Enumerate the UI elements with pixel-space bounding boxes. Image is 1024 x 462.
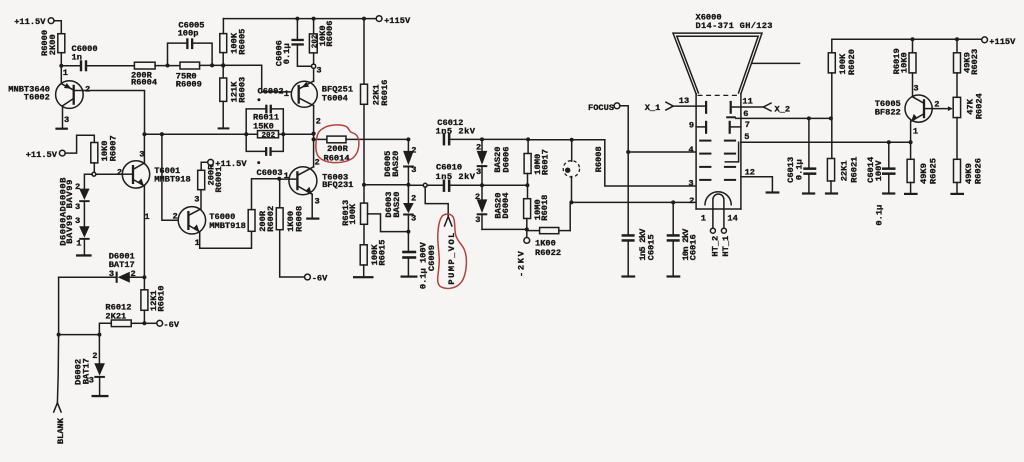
+115V rail right	[832, 39, 982, 53]
svg-text:3: 3	[315, 196, 320, 206]
label D6000A D6000B BAV99	[59, 177, 76, 246]
diode D6000A BAV99	[75, 216, 90, 248]
wire	[482, 184, 527, 186]
node	[671, 200, 675, 204]
svg-text:2: 2	[476, 143, 481, 153]
svg-text:PUMP_VOL: PUMP_VOL	[447, 233, 457, 285]
heater	[701, 192, 738, 229]
svg-text:2: 2	[315, 158, 320, 168]
capacitor C6013 0.1u	[786, 116, 816, 194]
svg-text:2: 2	[85, 85, 90, 95]
svg-text:3: 3	[64, 115, 69, 125]
wire	[222, 53, 224, 78]
svg-text:R6023: R6023	[970, 49, 980, 75]
svg-text:11: 11	[742, 97, 752, 107]
node	[142, 132, 146, 136]
resistor R6011 15K0 boxed 202	[253, 113, 279, 140]
wire	[93, 163, 95, 172]
node	[57, 333, 61, 337]
svg-text:BAS20: BAS20	[391, 151, 401, 177]
svg-text:X_2: X_2	[775, 104, 791, 114]
svg-text:C6003: C6003	[257, 168, 283, 178]
node open PUMP junction	[423, 183, 427, 187]
wire	[956, 183, 958, 193]
svg-text:-6V: -6V	[163, 320, 179, 330]
svg-text:100p: 100p	[178, 29, 199, 39]
resistor R6019 10K0	[892, 39, 916, 74]
wire	[65, 135, 94, 153]
svg-text:6: 6	[743, 109, 748, 119]
spark gap	[563, 140, 579, 203]
diode D6002 BAT17	[73, 335, 108, 398]
terminal +11.5V second	[26, 150, 65, 160]
svg-text:2: 2	[316, 116, 321, 126]
terminal +115V right	[982, 37, 1016, 47]
node	[295, 17, 299, 21]
svg-text:1n5 2kV: 1n5 2kV	[436, 172, 476, 182]
node	[166, 64, 170, 68]
wire	[279, 181, 281, 208]
connector X_2	[741, 97, 790, 115]
svg-text:C6009: C6009	[427, 245, 437, 271]
pin 6 line	[726, 109, 831, 119]
terminal HT_2	[710, 228, 720, 256]
wire R6008 to -6V	[280, 230, 305, 277]
svg-text:2: 2	[117, 167, 122, 177]
resistor R6017 10M0	[524, 139, 551, 175]
node	[406, 137, 410, 141]
svg-text:D6006: D6006	[502, 147, 512, 173]
CRT X6000 D14-371 GH/123 label	[696, 13, 773, 31]
svg-text:R6022: R6022	[535, 248, 561, 258]
node	[570, 138, 574, 142]
svg-text:0.1μ: 0.1μ	[282, 43, 292, 64]
node	[142, 321, 146, 325]
bus wire	[145, 133, 258, 135]
bus wire	[279, 133, 314, 135]
svg-text:3: 3	[89, 375, 94, 385]
terminal -2KV	[517, 238, 530, 278]
pin 7 electrode	[729, 120, 750, 134]
svg-text:C6015: C6015	[647, 234, 657, 260]
capacitor C6014 0.1u 100V	[866, 142, 895, 225]
anode line	[752, 62, 800, 64]
resistor R6008 1K00	[276, 206, 304, 232]
wire T6001 collector	[143, 134, 145, 163]
wire	[62, 106, 64, 128]
wire	[527, 174, 529, 199]
terminal -6V right	[305, 274, 329, 284]
wire	[201, 162, 208, 170]
wire R6016 column junction	[364, 184, 408, 186]
resistor R6021 22K1	[827, 157, 859, 183]
resistor R6009 75R0	[176, 62, 202, 90]
svg-text:14: 14	[727, 214, 737, 224]
svg-text:2: 2	[92, 351, 97, 361]
svg-text:R6004: R6004	[131, 78, 157, 88]
wire to T6001 base	[96, 173, 123, 175]
resistor R6001 200R	[198, 164, 224, 193]
potentiometer R6024 47K	[953, 93, 984, 119]
resistor R6023 49K9	[954, 39, 981, 75]
svg-text:1n: 1n	[72, 53, 82, 63]
pin 11 electrode	[730, 101, 732, 114]
svg-text:R6008: R6008	[295, 206, 305, 232]
svg-text:100V: 100V	[874, 160, 884, 182]
ground	[825, 192, 838, 194]
wire T6003 collector	[313, 139, 315, 166]
node	[955, 37, 959, 41]
net label R6008 wire to pin3	[594, 140, 696, 186]
svg-text:R6015: R6015	[378, 240, 388, 266]
svg-text:BAS20: BAS20	[392, 192, 402, 218]
svg-text:MMBT918: MMBT918	[154, 175, 191, 185]
svg-text:2: 2	[131, 269, 136, 279]
svg-text:2: 2	[75, 182, 80, 192]
pin 9 electrode	[689, 120, 707, 133]
svg-text:R6018: R6018	[540, 195, 550, 221]
terminal FOCUS	[588, 103, 620, 113]
node	[406, 183, 410, 187]
wire	[956, 118, 958, 160]
svg-text:1: 1	[63, 68, 68, 78]
stub with bar below R6003	[218, 101, 230, 129]
svg-text:R6009: R6009	[176, 80, 202, 90]
svg-text:1K00: 1K00	[535, 238, 556, 248]
resistor R6003 121K	[220, 77, 248, 103]
terminal HT_1	[721, 228, 731, 256]
svg-text:202: 202	[262, 132, 276, 140]
resistor R6013 100K	[341, 200, 368, 226]
resistor R6020 100K	[828, 49, 857, 75]
wire	[313, 19, 315, 34]
svg-text:9: 9	[689, 120, 694, 130]
svg-text:HT_1: HT_1	[721, 236, 731, 257]
wire	[200, 190, 202, 209]
diode D6006 BAS20	[476, 139, 512, 185]
svg-text:3: 3	[316, 65, 321, 75]
node	[210, 63, 214, 67]
resistor R6000 2K00	[40, 30, 65, 56]
svg-text:3: 3	[109, 269, 114, 279]
capacitor C6000 1n	[63, 44, 134, 71]
svg-text:2: 2	[475, 192, 480, 202]
svg-text:D14-371 GH/123: D14-371 GH/123	[696, 21, 773, 31]
svg-text:MMBT918: MMBT918	[209, 221, 246, 231]
svg-text:BFQ231: BFQ231	[322, 180, 353, 190]
svg-text:D6004: D6004	[501, 193, 511, 219]
red annotation circle around R6014	[316, 125, 359, 163]
wire	[956, 73, 958, 97]
svg-text:BF822: BF822	[875, 107, 901, 117]
wire T6002 base to bus	[83, 91, 144, 135]
svg-text:1: 1	[913, 126, 918, 136]
svg-text:R6003: R6003	[237, 77, 247, 103]
wire	[831, 73, 833, 159]
wire	[54, 21, 61, 34]
wire T6001 emitter down	[143, 186, 145, 277]
node	[526, 137, 530, 141]
wire	[252, 179, 278, 210]
svg-text:T6002: T6002	[24, 93, 50, 103]
wire	[912, 73, 914, 96]
svg-text:3: 3	[411, 165, 416, 175]
svg-text:2K21: 2K21	[105, 311, 126, 321]
svg-text:2K00: 2K00	[48, 34, 58, 55]
wire	[60, 53, 62, 84]
resistor R6005 100K	[220, 29, 248, 55]
svg-text:3: 3	[688, 178, 693, 188]
svg-text:2: 2	[173, 212, 178, 222]
resistor R6004 200R	[131, 62, 157, 87]
svg-text:49K9: 49K9	[964, 163, 974, 184]
node open	[92, 172, 96, 176]
svg-text:R6026: R6026	[974, 158, 984, 184]
svg-text:3: 3	[411, 214, 416, 224]
svg-text:22K1: 22K1	[840, 160, 850, 181]
resistor R6016 22K1	[361, 80, 391, 106]
resistor R6018 10M0	[524, 195, 551, 221]
transistor T6003 BFQ231	[281, 158, 353, 207]
capacitor C6010 1n5 2kV	[408, 163, 482, 192]
transistor T6000 MMBT918	[173, 195, 246, 248]
node circle pin3 T6004	[312, 64, 322, 75]
node 1 of T6002	[59, 64, 68, 79]
star mark	[257, 161, 260, 164]
resistor R6022 1K00	[527, 228, 570, 258]
wire	[363, 265, 365, 276]
terminal -6V left	[146, 320, 179, 330]
transistor T6002 MNBT3640	[8, 81, 90, 125]
wire	[910, 183, 912, 193]
svg-text:-2KV: -2KV	[517, 250, 527, 277]
resistor R6010 12K1	[141, 277, 167, 311]
svg-text:3: 3	[194, 195, 199, 205]
node	[626, 150, 630, 154]
svg-text:R6001: R6001	[214, 166, 224, 192]
transistor T6005 BF822	[875, 83, 940, 136]
wire BLANK	[57, 335, 58, 403]
wire	[482, 228, 527, 230]
pin 5 line	[741, 132, 911, 142]
wire BLANK branch	[59, 277, 100, 334]
terminal +11.5V third	[208, 159, 248, 169]
connector PUMP_VOL	[445, 217, 458, 285]
svg-text:1: 1	[701, 214, 706, 224]
resistor R6006 10K0 boxed 202	[309, 21, 335, 53]
pin 13 electrode	[696, 101, 707, 114]
resistor R6012 2K21	[105, 303, 144, 327]
capacitor C6012 1n5 2kV	[436, 118, 476, 146]
wire T6000 base	[162, 134, 178, 220]
svg-text:0.1μ: 0.1μ	[874, 205, 884, 226]
ground	[904, 193, 918, 195]
svg-text:3: 3	[476, 167, 481, 177]
svg-text:0.1μ: 0.1μ	[795, 159, 805, 180]
node	[525, 227, 529, 231]
wire	[143, 310, 145, 323]
svg-text:FOCUS: FOCUS	[588, 103, 614, 113]
connector BLANK	[54, 403, 66, 444]
wire	[200, 64, 262, 66]
wire	[363, 224, 365, 245]
resistor R6002 200R	[248, 206, 276, 232]
wire	[313, 53, 315, 64]
node	[525, 183, 529, 187]
svg-text:BAV99 BAV99: BAV99 BAV99	[65, 180, 75, 244]
wire	[450, 138, 528, 140]
node	[142, 275, 146, 279]
node	[244, 132, 248, 136]
svg-text:3: 3	[75, 216, 80, 226]
wire FOCUS down	[620, 106, 628, 235]
transistor T6001 MMBT918	[117, 149, 191, 222]
svg-text:R6016: R6016	[380, 80, 390, 106]
svg-text:5: 5	[744, 132, 749, 142]
diode D6005 BAS20	[383, 139, 416, 184]
svg-text:R6017: R6017	[541, 149, 551, 175]
node	[221, 63, 225, 67]
wire T6004 base	[262, 65, 292, 92]
node	[909, 140, 913, 144]
wire	[155, 65, 180, 67]
wire pin2 line	[571, 201, 695, 203]
svg-text:100K: 100K	[348, 203, 358, 225]
node	[312, 137, 316, 141]
svg-text:X_1: X_1	[645, 103, 661, 113]
+115V rail	[223, 18, 376, 20]
svg-text:+115V: +115V	[384, 16, 411, 26]
svg-text:R6024: R6024	[975, 93, 985, 119]
CRT funnel	[673, 33, 762, 94]
transistor T6004 BFQ251	[258, 81, 354, 107]
svg-text:R6002: R6002	[266, 206, 276, 232]
svg-text:1: 1	[144, 212, 149, 222]
svg-text:+115V: +115V	[989, 37, 1016, 47]
star mark	[257, 98, 260, 101]
svg-text:BLANK: BLANK	[56, 417, 66, 444]
wire	[83, 202, 85, 226]
resistor R6025 49K9	[907, 158, 939, 184]
svg-text:1: 1	[284, 89, 289, 99]
svg-text:R6020: R6020	[847, 49, 857, 75]
svg-text:R6025: R6025	[929, 158, 939, 184]
svg-text:R6008: R6008	[594, 146, 604, 172]
svg-text:R6005: R6005	[237, 29, 247, 55]
electrode ladder left	[699, 140, 711, 181]
svg-text:C6016: C6016	[689, 234, 699, 260]
wire T6005 base to R6024 wiper	[932, 106, 953, 111]
node	[887, 140, 891, 144]
ground	[55, 128, 68, 130]
wire	[569, 202, 571, 230]
node	[362, 183, 366, 187]
pin5 internal bracket	[725, 142, 738, 162]
svg-text:7: 7	[745, 120, 750, 130]
node	[312, 17, 316, 21]
svg-text:4: 4	[688, 145, 693, 155]
node	[569, 200, 573, 204]
ground	[306, 218, 319, 220]
svg-text:3: 3	[139, 149, 144, 159]
capacitor C6006 0.1u	[274, 19, 311, 67]
node	[480, 137, 484, 141]
wire R6016 top	[363, 19, 365, 85]
wire to spark gap	[528, 139, 605, 141]
svg-text:R6021: R6021	[849, 157, 859, 183]
svg-text:+11.5V: +11.5V	[14, 17, 46, 27]
ground	[950, 193, 964, 195]
wire T6003 emitter	[311, 194, 313, 217]
node C6009	[406, 230, 410, 234]
svg-text:49K9: 49K9	[919, 163, 929, 184]
electrode ladder right	[724, 140, 736, 181]
svg-text:-6V: -6V	[312, 274, 328, 284]
red annotation around PUMP_VOL	[438, 214, 467, 288]
svg-text:+11.5V: +11.5V	[26, 150, 58, 160]
resistor R6014 200R	[314, 136, 409, 163]
capacitor C6015 1n5 2kV	[621, 228, 656, 278]
connector X_1	[645, 96, 696, 113]
svg-text:1: 1	[76, 238, 81, 248]
node C6003/T6003 base	[277, 171, 289, 181]
terminal +115V	[376, 16, 411, 26]
node	[362, 17, 366, 21]
terminal +11.5V	[14, 17, 54, 27]
svg-text:3: 3	[475, 215, 480, 225]
wire PUMP_VOL	[425, 187, 448, 216]
ground	[353, 276, 374, 278]
svg-text:R6010: R6010	[157, 286, 167, 312]
wire T6000 emitter	[200, 231, 252, 248]
capacitor C6003	[246, 134, 283, 178]
diode D6003 BAS20	[384, 185, 416, 232]
capacitor C6005 100p	[168, 21, 213, 66]
resistor R6026 49K9	[954, 158, 984, 184]
capacitor C6016 10n 2kV	[667, 202, 699, 277]
wire T6004 emitter	[313, 106, 315, 140]
diode D6001 BAT17	[59, 251, 145, 283]
svg-text:R6007: R6007	[108, 135, 118, 161]
svg-text:3: 3	[75, 202, 80, 212]
resistor R6007 10K0	[91, 135, 119, 163]
svg-text:HT_2: HT_2	[710, 236, 720, 257]
svg-text:C6002: C6002	[258, 87, 284, 97]
CRT neck	[696, 94, 741, 209]
diode D6000B BAV99	[75, 182, 90, 212]
svg-text:2: 2	[689, 196, 694, 206]
wire	[83, 240, 85, 254]
svg-text:10K0: 10K0	[900, 52, 910, 73]
node	[480, 183, 484, 187]
node	[281, 132, 285, 136]
svg-text:3: 3	[913, 83, 918, 93]
ground	[76, 254, 92, 256]
wire	[99, 323, 111, 334]
svg-text:13: 13	[679, 96, 689, 106]
wire	[313, 68, 315, 81]
node	[829, 116, 833, 120]
wire R6013 dogleg to C6009 node	[368, 214, 409, 232]
wire	[830, 181, 832, 192]
wire	[526, 219, 528, 238]
svg-text:R6006: R6006	[325, 21, 335, 47]
node	[312, 132, 316, 136]
svg-text:T6004: T6004	[322, 93, 348, 103]
wire pin4 line	[628, 151, 696, 153]
wire	[363, 104, 365, 203]
node	[911, 37, 915, 41]
